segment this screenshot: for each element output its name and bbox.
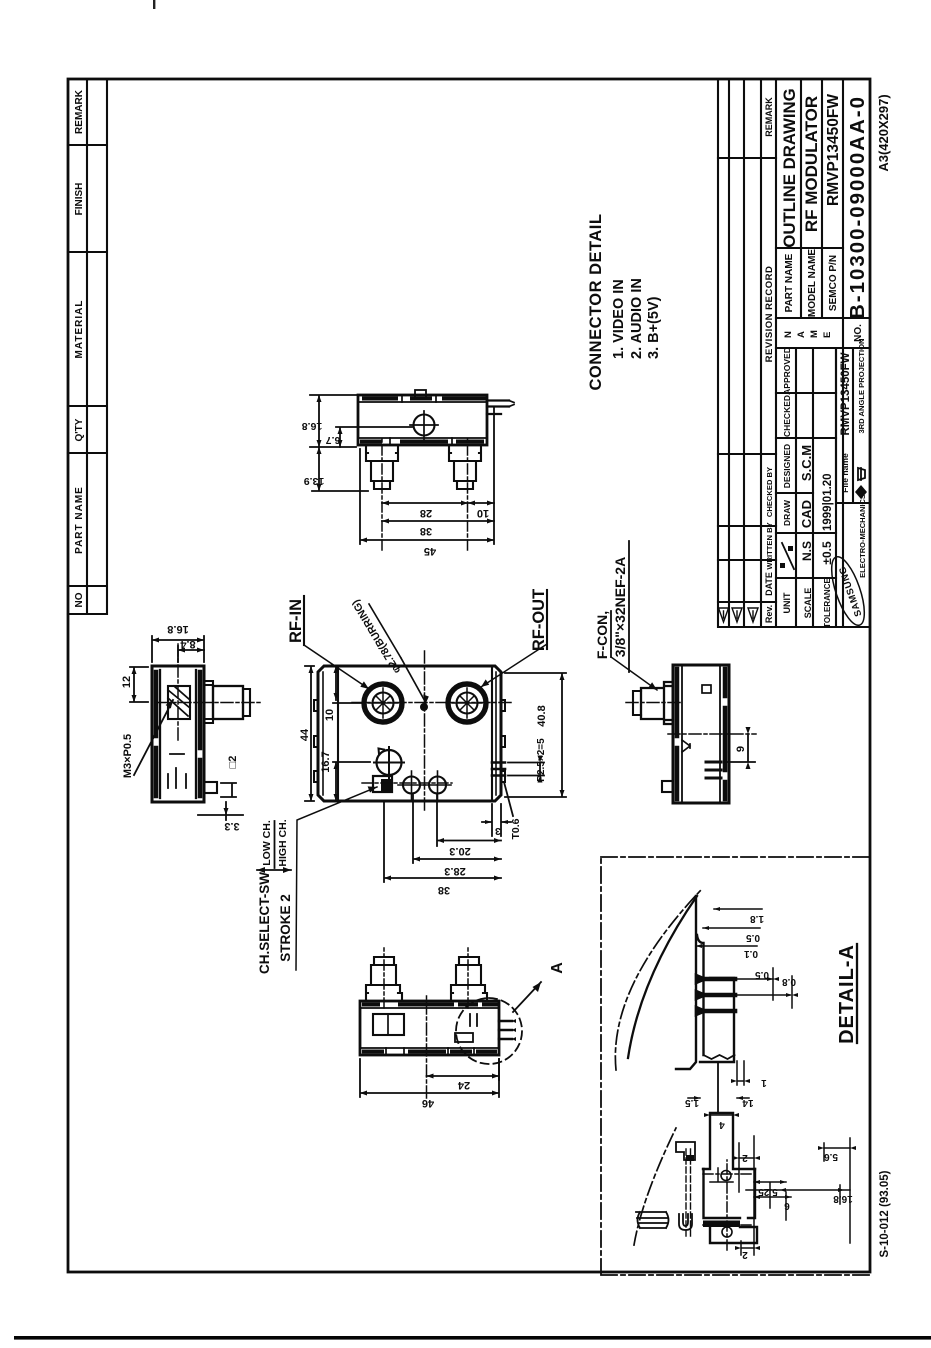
dim 16.8 — [152, 636, 204, 662]
junction line between parts — [717, 1063, 719, 1112]
svg-text:DRAW: DRAW — [782, 499, 792, 526]
dim 3.3 — [198, 802, 243, 820]
leader RF-IN — [304, 645, 369, 689]
svg-text:File name: File name — [840, 453, 850, 493]
pin thin extensions — [735, 979, 790, 995]
svg-text:F-CON,: F-CON, — [594, 611, 610, 659]
dim 5.6 — [824, 1147, 850, 1149]
svg-text:16.8: 16.8 — [302, 420, 323, 432]
svg-text:REVISION RECORD: REVISION RECORD — [764, 266, 775, 363]
VIEW-FRONT (main view) — [299, 648, 566, 896]
svg-text:12: 12 — [121, 676, 133, 688]
svg-text:OUTLINE DRAWING: OUTLINE DRAWING — [780, 88, 799, 247]
dim 16.8 detail — [746, 1189, 850, 1191]
svg-text:S.C.M: S.C.M — [799, 445, 814, 481]
internal box — [373, 1014, 404, 1035]
svg-text:E: E — [822, 332, 833, 338]
svg-text:28.3: 28.3 — [444, 865, 465, 877]
svg-text:0.8: 0.8 — [782, 976, 796, 987]
leader M3 boss — [134, 700, 173, 775]
svg-text:HIGH CH.: HIGH CH. — [277, 819, 289, 866]
ANNOTATIONS — [257, 214, 662, 975]
svg-text:DESIGNED: DESIGNED — [782, 444, 792, 488]
svg-text:1.8: 1.8 — [750, 913, 764, 924]
VIEW-TOP (side view above front view) — [121, 623, 262, 832]
svg-text:±0.5: ±0.5 — [820, 541, 834, 565]
svg-text:16.8: 16.8 — [167, 623, 188, 635]
right view body — [358, 395, 487, 445]
leader CH select switch — [296, 787, 377, 970]
svg-text:38: 38 — [438, 884, 450, 896]
svg-text:20.3: 20.3 — [449, 845, 470, 857]
svg-text:M: M — [809, 330, 820, 338]
dim 2 upper — [739, 1157, 754, 1159]
left mid section — [704, 1169, 756, 1218]
internal box 2 — [455, 1033, 473, 1042]
svg-text:CH.SELECT-SW: CH.SELECT-SW — [257, 872, 272, 974]
svg-text:3. B+(5V): 3. B+(5V) — [646, 296, 662, 359]
bottom pins — [487, 401, 509, 415]
svg-text:TOLERANCE: TOLERANCE — [823, 578, 832, 628]
scan artifact: dark page edge line at bottom of portrait — [14, 1336, 931, 1340]
svg-text:FINISH: FINISH — [74, 183, 85, 216]
svg-text:10: 10 — [324, 709, 336, 721]
dim 6 — [754, 1196, 791, 1198]
svg-text:3/8"×32NEF-2A: 3/8"×32NEF-2A — [612, 557, 628, 657]
svg-text:CONNECTOR DETAIL: CONNECTOR DETAIL — [587, 214, 605, 391]
svg-text:9: 9 — [735, 746, 747, 752]
barrel axis — [626, 702, 682, 704]
right view shield bands — [362, 399, 484, 442]
svg-text:MATERIAL: MATERIAL — [74, 300, 85, 359]
svg-text:40.8: 40.8 — [536, 705, 548, 726]
castellation notches left — [386, 1048, 474, 1055]
upper F-connector barrel (pointing right) — [366, 957, 402, 1001]
svg-text:MODEL NAME: MODEL NAME — [807, 249, 818, 317]
cabinet vent ladder — [636, 1212, 669, 1228]
F-connector barrel up — [641, 682, 673, 724]
svg-text:6.7: 6.7 — [326, 434, 341, 446]
pins in right profile — [697, 977, 735, 1014]
svg-text:PART NAME: PART NAME — [784, 253, 795, 312]
vertical centerline — [352, 702, 512, 704]
TITLEBLOCK (bottom-right) — [718, 79, 891, 1257]
pin hole 1 — [721, 1171, 731, 1181]
leader F-CON — [611, 657, 657, 690]
svg-text:RMVP13450FW: RMVP13450FW — [840, 352, 852, 435]
svg-text:5.6: 5.6 — [824, 1151, 838, 1162]
dim stack 1.8 0.5 0.1 — [696, 909, 762, 946]
pin axis centerline — [726, 1160, 728, 1250]
horizontal centerline — [424, 648, 426, 810]
svg-text:A: A — [549, 962, 566, 974]
svg-text:RF-IN: RF-IN — [287, 599, 305, 643]
barrel centerlines — [383, 948, 385, 1008]
dim 5.25 — [754, 1181, 786, 1183]
VIEW-SIDE (below front view) — [626, 665, 756, 803]
top view body — [152, 666, 204, 802]
body centerline — [426, 996, 428, 1098]
svg-text:DATE: DATE — [764, 572, 774, 596]
svg-text:A: A — [796, 331, 807, 338]
left bottom section — [710, 1227, 757, 1243]
bottom view inner edges — [360, 1008, 499, 1048]
front view outline with corner notches — [318, 666, 501, 801]
svg-text:PART NAME: PART NAME — [74, 486, 85, 554]
dim 4 — [710, 1114, 733, 1116]
VIEW-RIGHT (connector-side view, far right) — [302, 390, 514, 557]
svg-text:A3(420X297): A3(420X297) — [876, 94, 891, 171]
dim 0.5 0.8 below pins — [773, 968, 792, 1008]
divider low/high — [274, 821, 276, 868]
svg-text:8.4: 8.4 — [179, 638, 195, 650]
upper barrel (pointing left) — [366, 445, 398, 489]
side view body — [673, 665, 729, 803]
barrel axis centerline — [158, 702, 262, 704]
svg-text:3: 3 — [495, 825, 501, 837]
svg-text:16.8: 16.8 — [833, 1193, 853, 1204]
svg-text:N: N — [783, 331, 794, 338]
small hole 1 — [403, 777, 420, 794]
svg-text:NO.: NO. — [853, 324, 864, 342]
sheet border — [68, 79, 870, 1272]
svg-text:NO: NO — [74, 592, 85, 607]
dim 8.4 — [178, 646, 204, 662]
svg-text:3RD ANGLE PROJECTION: 3RD ANGLE PROJECTION — [857, 338, 866, 433]
svg-text:Q'TY: Q'TY — [74, 418, 85, 441]
side view internal mark B — [702, 685, 711, 693]
svg-text:SEMCO P/N: SEMCO P/N — [828, 255, 839, 311]
castellation notches top edge — [314, 700, 505, 782]
dim 38 — [382, 520, 494, 522]
top view internal slots — [168, 754, 186, 788]
cabinet curve right (dash-dot) — [615, 890, 701, 1070]
pin hole 2 — [722, 1227, 732, 1237]
shield fold lines top/bottom — [338, 666, 492, 801]
svg-text:□2: □2 — [227, 756, 239, 769]
dim 10 — [333, 666, 365, 703]
dims 1.5 and 14 — [688, 1097, 749, 1099]
svg-text:B-10300-09000AA-0: B-10300-09000AA-0 — [846, 97, 869, 319]
left shield profile upper bar — [703, 1113, 755, 1169]
dim P2.5x2=5 pins — [508, 763, 544, 776]
internal mark — [470, 1014, 477, 1026]
file name sub-cells — [836, 348, 870, 503]
svg-text:DETAIL-A: DETAIL-A — [836, 944, 858, 1044]
ext lines left dims — [739, 1136, 850, 1255]
dim 40.8 — [505, 673, 566, 797]
dim box2 (tab) — [221, 783, 236, 797]
svg-text:14: 14 — [742, 1097, 754, 1108]
RF-OUT connector circle — [448, 684, 486, 722]
svg-text:13.9: 13.9 — [304, 475, 325, 487]
svg-text:ELECTRO-MECHANICS: ELECTRO-MECHANICS — [858, 494, 867, 578]
svg-text:STROKE 2: STROKE 2 — [278, 894, 293, 962]
DETAIL-A — [601, 857, 869, 1275]
bottom view body — [360, 1001, 499, 1055]
lower barrel — [449, 445, 481, 489]
F-connector barrel (pointing down) — [204, 681, 213, 723]
dim 46 — [360, 1059, 499, 1097]
ref centerline for 9 — [668, 733, 756, 735]
small tab right — [415, 390, 426, 398]
dim 44 — [305, 666, 314, 801]
channel adjust hole — [377, 750, 402, 775]
castellation notches — [390, 395, 452, 445]
svg-text:P2.5×2=5: P2.5×2=5 — [536, 738, 547, 782]
side view step detail — [682, 740, 690, 752]
revision column dividers — [718, 158, 776, 602]
svg-text:10: 10 — [477, 507, 489, 519]
svg-text:Rev.: Rev. — [764, 605, 774, 623]
svg-text:M3×P0.5: M3×P0.5 — [122, 734, 134, 778]
svg-text:2: 2 — [742, 1152, 748, 1163]
dim 45 — [360, 408, 494, 544]
svg-text:16.7: 16.7 — [320, 751, 332, 772]
detail boundary dash-dot box — [601, 857, 869, 1275]
top view inner shield edges — [160, 670, 196, 798]
svg-text:REMARK: REMARK — [74, 89, 85, 134]
boss centerline — [177, 642, 179, 740]
detail circle A dashed — [456, 998, 522, 1064]
svg-text:REMARK: REMARK — [764, 97, 774, 137]
cabinet boss step — [676, 1142, 695, 1160]
lower F-connector barrel — [451, 957, 487, 1001]
dim chain 13.9 / 16.8 — [310, 395, 420, 491]
svg-text:45: 45 — [424, 545, 436, 557]
right shield profile — [676, 896, 734, 1069]
svg-text:RMVP13450FW: RMVP13450FW — [825, 94, 842, 206]
pins through side — [706, 762, 721, 778]
burring hole dot — [420, 703, 428, 711]
M3 screw boss hatched — [168, 686, 190, 719]
bottom view RF pins — [499, 1021, 512, 1039]
revision triangles — [719, 608, 759, 622]
leader burring — [401, 658, 426, 703]
mounting tab on top — [662, 781, 673, 792]
svg-text:3.3: 3.3 — [224, 820, 239, 832]
svg-text:5.25: 5.25 — [758, 1186, 778, 1197]
dim chain 28 and 10 — [382, 502, 494, 504]
screw hidden lines — [686, 1148, 691, 1236]
U clip — [679, 1214, 692, 1230]
samsung logo oval — [825, 553, 871, 629]
left chain dim 3 — [482, 804, 511, 836]
pins at bottom edge — [492, 763, 505, 776]
svg-text:1999|01.20: 1999|01.20 — [822, 473, 834, 531]
dim 2 bottom — [741, 1241, 754, 1255]
svg-text:APPROVED: APPROVED — [782, 347, 792, 395]
svg-text:4: 4 — [719, 1119, 725, 1130]
leader RF-OUT — [481, 644, 547, 687]
left chain dim 26.3 — [413, 795, 501, 863]
svg-text:N.S: N.S — [800, 541, 814, 561]
RF-IN connector circle — [364, 684, 402, 722]
PARTS-TABLE (top strip) — [68, 79, 107, 614]
svg-text:0.5: 0.5 — [755, 969, 769, 980]
scan artifact: small tick top — [153, 0, 155, 9]
svg-text:0.5: 0.5 — [746, 932, 760, 943]
svg-text:6: 6 — [784, 1200, 790, 1211]
cabinet curve right solid — [628, 896, 697, 1058]
svg-text:CHECKED BY: CHECKED BY — [765, 467, 774, 517]
dim 24 — [427, 1059, 500, 1080]
dim 12 — [130, 667, 148, 702]
left chain dim 36 — [384, 801, 501, 882]
VIEW-BOTTOM (left view with detail circle A) — [360, 948, 566, 1109]
third angle projection symbols — [855, 485, 867, 499]
svg-text:44: 44 — [299, 728, 311, 741]
side view shield bands — [677, 669, 725, 799]
small hole 2 — [429, 777, 446, 794]
right view inner edges — [358, 402, 487, 438]
svg-text:1: 1 — [761, 1077, 767, 1088]
cross centerlines at pin holes — [703, 1174, 753, 1225]
svg-text:CHECKED: CHECKED — [782, 395, 792, 437]
svg-text:φ2.78(BURRING): φ2.78(BURRING) — [350, 597, 404, 675]
svg-text:1. VIDEO IN: 1. VIDEO IN — [611, 279, 627, 359]
parts table grid — [68, 79, 107, 614]
svg-text:LOW CH.: LOW CH. — [261, 820, 273, 866]
svg-text:24: 24 — [457, 1079, 470, 1091]
cabinet curve left dash-dot — [634, 1128, 676, 1245]
svg-text:UNIT: UNIT — [782, 592, 792, 613]
ch select switch square — [373, 776, 392, 792]
lower block grid — [796, 79, 843, 627]
barrel centerlines — [381, 436, 383, 550]
tab below body — [204, 782, 217, 793]
svg-text:28: 28 — [420, 507, 432, 519]
dim 1 at notch — [737, 1061, 744, 1085]
wave break at left end — [704, 1055, 735, 1059]
arrow to label A — [513, 982, 541, 1012]
title block outer + revision rows — [718, 79, 870, 627]
dim 6.7 — [336, 427, 412, 447]
svg-text:SCALE: SCALE — [803, 588, 813, 619]
mounting hole crosshair — [414, 415, 435, 436]
left chain dim 20.3 — [437, 795, 501, 846]
svg-text:2: 2 — [742, 1249, 748, 1260]
svg-text:0.1: 0.1 — [744, 948, 758, 959]
svg-text:2. AUDIO IN: 2. AUDIO IN — [629, 278, 645, 359]
svg-text:1.5: 1.5 — [685, 1097, 699, 1108]
side view inner lines — [682, 665, 720, 803]
bottom view shield bands — [364, 1005, 496, 1052]
svg-text:38: 38 — [420, 525, 432, 537]
top view shield thick bands — [156, 672, 200, 796]
svg-text:RF MODULATOR: RF MODULATOR — [802, 96, 821, 232]
dim 16.7 — [333, 762, 370, 801]
black bar — [703, 1221, 740, 1228]
svg-text:WRITTEN BY: WRITTEN BY — [765, 522, 774, 569]
svg-text:RF-OUT: RF-OUT — [530, 589, 548, 651]
svg-text:S-10-012 (93.05): S-10-012 (93.05) — [879, 1170, 891, 1257]
svg-text:46: 46 — [422, 1097, 434, 1109]
svg-text:CAD: CAD — [799, 500, 814, 528]
dim 9 — [724, 734, 755, 762]
unit mm symbol — [782, 543, 794, 569]
stroke arrow — [257, 869, 291, 871]
